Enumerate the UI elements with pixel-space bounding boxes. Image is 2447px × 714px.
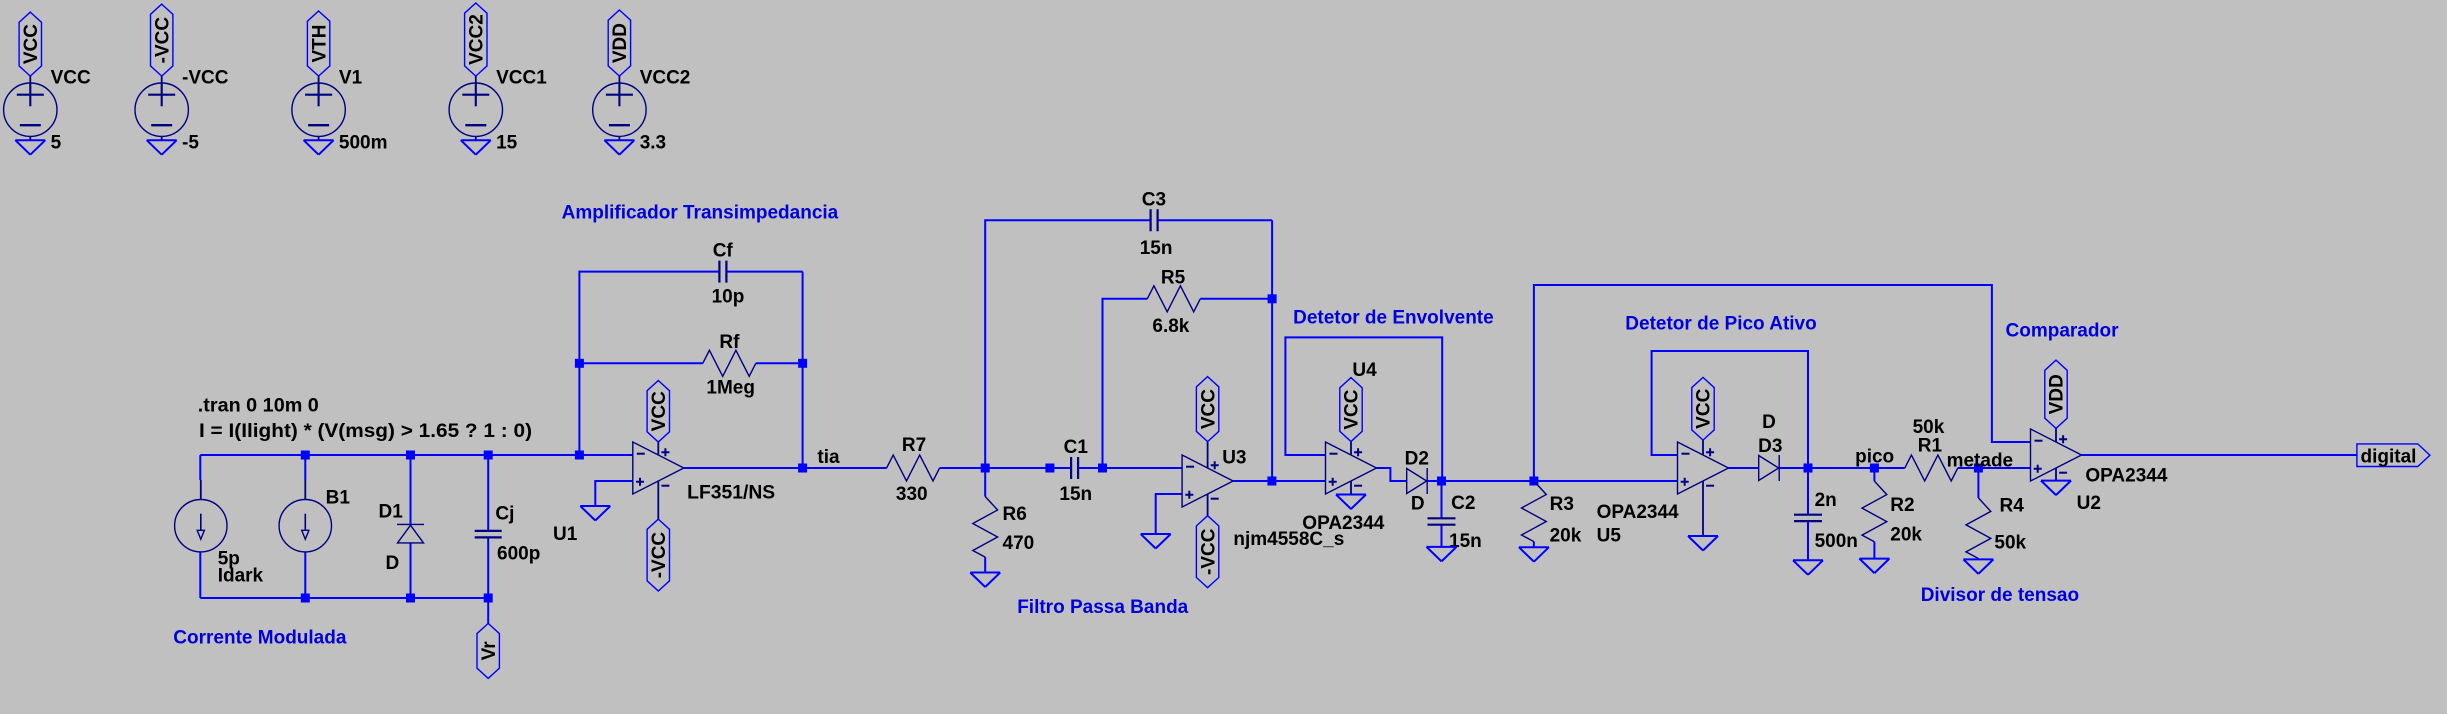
svg-text:3.3: 3.3 bbox=[640, 133, 666, 154]
svg-text:U3: U3 bbox=[1222, 447, 1246, 468]
svg-text:V1: V1 bbox=[339, 68, 363, 89]
wire C3 branch bbox=[985, 220, 1272, 481]
svg-text:50k: 50k bbox=[1994, 533, 2026, 554]
svg-text:D3: D3 bbox=[1758, 436, 1782, 457]
node junction bbox=[981, 464, 990, 473]
svg-text:330: 330 bbox=[896, 484, 928, 505]
wire Rf row bbox=[579, 362, 802, 364]
wire U4 output jog bbox=[1377, 468, 1407, 481]
ground bbox=[461, 140, 491, 155]
svg-text:OPA2344: OPA2344 bbox=[2085, 466, 2167, 487]
ground bbox=[1141, 534, 1171, 549]
ground bbox=[1427, 547, 1457, 562]
wire U3 output bbox=[1233, 480, 1325, 482]
svg-text:VDD: VDD bbox=[610, 23, 631, 63]
wire peak hold cap bbox=[1807, 468, 1809, 560]
capacitor Cf bbox=[719, 261, 726, 283]
voltage source VCC bbox=[4, 83, 57, 137]
svg-text:R6: R6 bbox=[1003, 504, 1027, 525]
capacitor 2n 500n bbox=[1794, 515, 1822, 521]
wire U4 power pins bbox=[1350, 442, 1352, 495]
svg-text:6.8k: 6.8k bbox=[1152, 316, 1189, 337]
ground U5 bbox=[1688, 536, 1718, 551]
wire U3 noninverting to ground bbox=[1156, 494, 1182, 534]
node junction bbox=[484, 451, 493, 460]
net flag VCC U1 bbox=[647, 381, 669, 443]
ground bbox=[970, 573, 1000, 588]
wire U1 noninverting to ground bbox=[595, 481, 633, 506]
svg-text:LF351/NS: LF351/NS bbox=[687, 483, 775, 504]
node junction bbox=[1098, 464, 1107, 473]
diode D2 bbox=[1407, 468, 1428, 494]
svg-text:15n: 15n bbox=[1140, 238, 1173, 259]
wire peak node to comparator inverting input bbox=[1534, 285, 2031, 481]
svg-text:VTH: VTH bbox=[309, 25, 330, 63]
wire U5 power pins bbox=[1702, 440, 1704, 536]
svg-text:20k: 20k bbox=[1890, 524, 1922, 545]
svg-text:R3: R3 bbox=[1550, 494, 1574, 515]
svg-text:R1: R1 bbox=[1918, 436, 1943, 457]
svg-text:pico: pico bbox=[1855, 447, 1894, 468]
node junction bbox=[406, 451, 415, 460]
svg-text:D: D bbox=[1411, 494, 1425, 515]
net flag -VCC U1 bbox=[647, 519, 669, 591]
voltage source -VCC bbox=[135, 83, 188, 137]
net flag Vr bbox=[477, 623, 499, 678]
node junction bbox=[798, 359, 807, 368]
svg-text:VCC1: VCC1 bbox=[496, 68, 547, 89]
svg-text:.tran 0 10m 0: .tran 0 10m 0 bbox=[198, 396, 319, 417]
ground bbox=[1963, 559, 1993, 574]
svg-text:tia: tia bbox=[817, 447, 840, 468]
diode D1 bbox=[397, 524, 424, 543]
ground U2 bbox=[2041, 481, 2071, 496]
wire bbox=[200, 480, 202, 500]
svg-text:D: D bbox=[386, 553, 400, 574]
svg-text:U4: U4 bbox=[1352, 360, 1377, 381]
node metade bbox=[1974, 464, 1983, 473]
wire bbox=[304, 455, 306, 598]
wire bbox=[940, 467, 1072, 469]
net flag -VCC bbox=[151, 4, 173, 76]
node junction bbox=[406, 594, 415, 603]
wire feedback right vertical bbox=[802, 272, 804, 468]
svg-text:15: 15 bbox=[496, 133, 518, 154]
svg-text:D1: D1 bbox=[379, 502, 404, 523]
wire bbox=[487, 598, 489, 623]
svg-text:470: 470 bbox=[1003, 533, 1035, 554]
svg-text:U5: U5 bbox=[1597, 526, 1622, 547]
current source Idark bbox=[175, 500, 227, 552]
node tia bbox=[798, 464, 807, 473]
svg-text:600p: 600p bbox=[497, 544, 540, 565]
svg-text:R7: R7 bbox=[902, 435, 926, 456]
node junction bbox=[301, 451, 310, 460]
wire U5 output bbox=[1729, 467, 1759, 469]
op-amp U3 bbox=[1182, 455, 1233, 507]
ground bbox=[1519, 547, 1549, 562]
resistor R2 bbox=[1862, 481, 1887, 542]
ground bbox=[604, 140, 634, 155]
svg-text:U2: U2 bbox=[2077, 493, 2101, 514]
voltage source VCC1 bbox=[449, 83, 502, 137]
voltage source V1 bbox=[292, 83, 345, 137]
svg-text:OPA2344: OPA2344 bbox=[1302, 513, 1384, 534]
svg-text:OPA2344: OPA2344 bbox=[1597, 502, 1679, 523]
svg-text:20k: 20k bbox=[1550, 526, 1582, 547]
svg-text:C2: C2 bbox=[1451, 493, 1475, 514]
wire bbox=[1078, 467, 1182, 469]
wire U1 power pins bbox=[657, 442, 659, 519]
resistor R3 bbox=[1522, 481, 1547, 542]
net flag VTH bbox=[307, 11, 329, 76]
svg-text:VCC: VCC bbox=[1694, 388, 1715, 428]
wire bbox=[1533, 542, 1535, 548]
svg-text:metade: metade bbox=[1947, 451, 2014, 472]
net flag -VCC U3 bbox=[1196, 516, 1218, 588]
ground bbox=[1793, 560, 1823, 575]
op-amp U5 bbox=[1678, 442, 1729, 494]
wire U2 power pins bbox=[2055, 428, 2057, 480]
wire R4 lead bbox=[1977, 468, 1979, 498]
wire bbox=[487, 455, 489, 598]
svg-text:500n: 500n bbox=[1815, 531, 1858, 552]
svg-text:Cf: Cf bbox=[713, 241, 734, 262]
svg-text:500m: 500m bbox=[339, 133, 388, 154]
resistor R7 bbox=[887, 455, 940, 481]
svg-text:U1: U1 bbox=[553, 524, 578, 545]
wire bbox=[304, 480, 306, 500]
svg-text:2n: 2n bbox=[1815, 490, 1837, 511]
svg-text:-5: -5 bbox=[182, 133, 199, 154]
net flag VDD bbox=[608, 10, 630, 76]
net flag VCC U5 bbox=[1692, 377, 1714, 440]
svg-text:Idark: Idark bbox=[218, 566, 264, 587]
resistor R6 bbox=[973, 497, 998, 558]
svg-text:-VCC: -VCC bbox=[1198, 528, 1219, 575]
op-amp U4 bbox=[1326, 442, 1377, 494]
svg-text:I = I(Ilight) * (V(msg) > 1.65: I = I(Ilight) * (V(msg) > 1.65 ? 1 : 0) bbox=[199, 421, 532, 442]
svg-text:Rf: Rf bbox=[719, 332, 740, 353]
svg-text:VCC: VCC bbox=[51, 68, 91, 89]
capacitor C1 bbox=[1071, 457, 1078, 479]
wire bbox=[199, 455, 201, 598]
node junction bbox=[1804, 464, 1813, 473]
wire bbox=[618, 76, 620, 140]
resistor R5 bbox=[1147, 286, 1200, 312]
wire U3 power pins bbox=[1207, 442, 1209, 516]
capacitor C3 bbox=[1151, 209, 1158, 231]
svg-text:VCC: VCC bbox=[1198, 389, 1219, 429]
svg-text:VCC: VCC bbox=[21, 24, 42, 64]
svg-text:VDD: VDD bbox=[2047, 374, 2068, 414]
svg-text:Vr: Vr bbox=[479, 641, 500, 661]
wire C2 bbox=[1441, 481, 1443, 547]
wire D3 cathode node bbox=[1779, 467, 1874, 469]
net flag VCC U3 bbox=[1196, 377, 1218, 442]
node junction bbox=[301, 594, 310, 603]
net flag VCC U4 bbox=[1340, 378, 1362, 442]
svg-text:-VCC: -VCC bbox=[152, 17, 173, 64]
svg-text:1Meg: 1Meg bbox=[706, 378, 755, 399]
resistor R1 bbox=[1905, 455, 1958, 481]
wire R1 row bbox=[1874, 467, 2030, 469]
wire bottom rail bbox=[200, 597, 488, 599]
svg-text:VCC2: VCC2 bbox=[640, 68, 691, 89]
node junction bbox=[1437, 477, 1446, 486]
wire D2 cathode node bbox=[1428, 480, 1534, 482]
svg-text:15n: 15n bbox=[1059, 484, 1092, 505]
svg-text:Filtro Passa Banda: Filtro Passa Banda bbox=[1017, 597, 1188, 618]
svg-text:Corrente Modulada: Corrente Modulada bbox=[173, 628, 347, 649]
wire top rail input net bbox=[200, 454, 633, 456]
wire bbox=[29, 76, 31, 140]
op-amp U2 bbox=[2031, 429, 2082, 481]
svg-text:VCC: VCC bbox=[1342, 389, 1363, 429]
wire bbox=[318, 76, 320, 140]
ground bbox=[1859, 559, 1889, 574]
wire bbox=[410, 455, 412, 598]
node junction bbox=[1268, 294, 1277, 303]
voltage source VCC2 bbox=[593, 83, 646, 137]
svg-text:R4: R4 bbox=[2000, 496, 2025, 517]
op-amp U1 bbox=[633, 442, 684, 494]
capacitor Cj bbox=[475, 531, 502, 538]
net flag VDD U2 bbox=[2045, 360, 2067, 428]
wire U2 output digital net bbox=[2082, 454, 2357, 456]
ground bbox=[304, 140, 334, 155]
svg-text:Divisor de tensao: Divisor de tensao bbox=[1921, 585, 2079, 606]
wire to U5 noninverting input bbox=[1534, 480, 1678, 482]
wire bbox=[475, 76, 477, 140]
svg-text:Cj: Cj bbox=[495, 504, 514, 525]
svg-text:-VCC: -VCC bbox=[649, 532, 670, 579]
resistor Rf bbox=[703, 350, 756, 376]
diode D3 bbox=[1759, 455, 1780, 481]
node junction bbox=[575, 451, 584, 460]
wire feedback left vertical bbox=[579, 272, 802, 455]
ground bbox=[580, 506, 610, 521]
ground U4 bbox=[1336, 495, 1366, 510]
svg-text:Detetor de Pico Ativo: Detetor de Pico Ativo bbox=[1625, 314, 1816, 335]
node pico bbox=[1870, 464, 1879, 473]
wire R6 bbox=[984, 468, 986, 573]
node junction bbox=[1529, 477, 1538, 486]
resistor R4 bbox=[1966, 498, 1991, 559]
node junction bbox=[1045, 464, 1054, 473]
capacitor C2 bbox=[1428, 518, 1456, 524]
svg-text:-VCC: -VCC bbox=[182, 68, 229, 89]
svg-text:Detetor de Envolvente: Detetor de Envolvente bbox=[1293, 308, 1494, 329]
node junction U3 output bbox=[1267, 477, 1276, 486]
svg-text:10p: 10p bbox=[712, 287, 745, 308]
wire U1 output bbox=[684, 467, 887, 469]
net flag VCC2 bbox=[465, 3, 487, 76]
current source B1 bbox=[279, 500, 331, 552]
svg-text:5: 5 bbox=[51, 133, 62, 154]
svg-text:R5: R5 bbox=[1161, 268, 1186, 289]
net flag VCC bbox=[19, 12, 41, 76]
svg-text:C3: C3 bbox=[1142, 189, 1166, 210]
ground bbox=[15, 140, 45, 155]
svg-text:digital: digital bbox=[2361, 447, 2417, 468]
ground bbox=[147, 140, 177, 155]
wire bbox=[161, 76, 163, 140]
wire U4 inverting feedback loop bbox=[1285, 337, 1442, 481]
wire R5 branch bbox=[1103, 299, 1273, 468]
svg-text:B1: B1 bbox=[326, 488, 351, 509]
node junction bbox=[484, 594, 493, 603]
svg-text:VCC: VCC bbox=[649, 391, 670, 431]
svg-text:Amplificador Transimpedancia: Amplificador Transimpedancia bbox=[562, 203, 839, 224]
output port flag digital bbox=[2357, 444, 2430, 467]
svg-text:R2: R2 bbox=[1890, 495, 1914, 516]
svg-text:Comparador: Comparador bbox=[2006, 320, 2120, 341]
svg-text:C1: C1 bbox=[1064, 437, 1089, 458]
svg-text:D: D bbox=[1762, 412, 1776, 433]
node junction bbox=[575, 359, 584, 368]
wire U5 inverting feedback loop bbox=[1652, 351, 1808, 468]
wire R2 lead bbox=[1873, 468, 1875, 559]
svg-text:D2: D2 bbox=[1405, 449, 1429, 470]
svg-text:VCC2: VCC2 bbox=[467, 14, 488, 65]
